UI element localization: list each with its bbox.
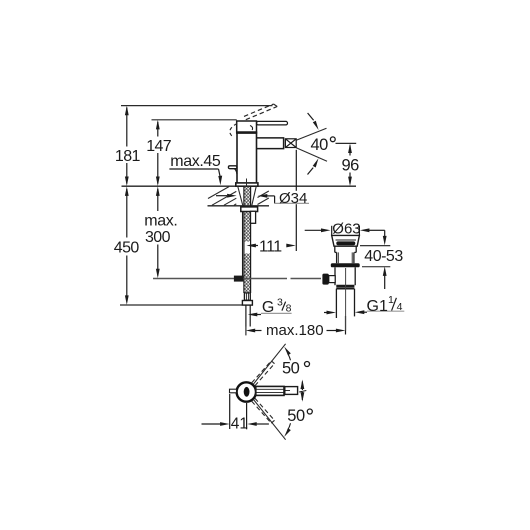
wire: 96 top reference line	[336, 142, 357, 144]
svg-text:40: 40	[311, 136, 329, 154]
plan view: spout tip tab	[230, 389, 237, 393]
svg-text:G1: G1	[367, 298, 388, 315]
label G 3/8	[248, 313, 292, 317]
aerator with cross	[285, 139, 296, 148]
shank washer lines under flange	[238, 187, 256, 206]
plan view: 50 line upper (solid thin)	[253, 344, 285, 384]
horizontal pop-up linkage rod	[153, 278, 321, 280]
pop-up pull knob on body	[228, 166, 237, 174]
svg-text:50: 50	[287, 407, 305, 425]
svg-text:111: 111	[259, 238, 282, 255]
svg-text:41: 41	[231, 416, 248, 433]
wire: top reference line (lever raised height 181)	[121, 105, 273, 107]
wire: 450 bottom reference line	[120, 304, 242, 306]
deck hatching	[208, 187, 269, 206]
40-degree spray angle lines	[296, 128, 327, 161]
40-degree lower leader arrow	[308, 158, 319, 174]
waste center rod line	[345, 268, 347, 331]
waste pop-up knob	[322, 274, 335, 285]
dimension diameter 63	[305, 226, 385, 235]
plan view: lever rotated down 50 (dashed)	[252, 398, 275, 423]
svg-text:Ø34: Ø34	[279, 190, 307, 207]
small rotation arrow at cartridge	[250, 126, 253, 131]
plan view: 50 line lower (solid thin)	[253, 399, 285, 439]
spout	[257, 138, 284, 149]
wire: reference line (lever rest height 147)	[152, 119, 237, 121]
dimension max.180	[246, 316, 346, 335]
pop-up pull rod (vertical)	[242, 212, 244, 277]
plan view: lever shaft	[256, 386, 284, 395]
plan view: swing arc at lever end with arrows	[299, 380, 306, 402]
svg-text:max.: max.	[144, 212, 177, 229]
pop-up waste assembly: flange	[332, 235, 360, 246]
O-ring seal (dark band)	[331, 263, 360, 267]
plan view: center pin	[244, 387, 250, 397]
waste upper body	[337, 252, 354, 263]
waste lower body	[335, 267, 355, 285]
svg-text:96: 96	[342, 157, 360, 175]
label max.45 with leader arrow to deck	[169, 169, 222, 185]
waste tailpipe G 1 1/4	[336, 289, 354, 318]
dimension 96	[348, 144, 352, 187]
base flange	[236, 183, 258, 186]
dimension max.300	[156, 186, 160, 278]
svg-text:147: 147	[146, 138, 172, 155]
svg-text:8: 8	[286, 302, 292, 314]
plan view: lever rotated up 50 (dashed)	[252, 361, 275, 386]
plan view: upper arc arrow	[284, 347, 291, 361]
svg-text:40-53: 40-53	[364, 248, 403, 265]
40-degree upper leader arrow	[308, 113, 319, 130]
plan view: handle circle	[237, 382, 256, 401]
svg-text:181: 181	[115, 148, 141, 165]
faucet lever (rest position)	[257, 121, 288, 125]
label G 1 1/4	[324, 310, 404, 314]
faucet body column	[237, 133, 257, 183]
lever swing dashed arc (left of cartridge)	[230, 124, 237, 138]
svg-text:50: 50	[282, 360, 300, 378]
mounting nut	[241, 207, 258, 212]
waste joint band	[336, 286, 354, 289]
dimension 111	[246, 150, 296, 251]
svg-text:G: G	[262, 299, 274, 316]
faucet lever (raised, dashed)	[244, 104, 277, 120]
svg-text:1: 1	[388, 294, 394, 306]
centerline tick at flange	[246, 179, 248, 187]
dimension 147	[156, 120, 160, 186]
rod coupling block	[234, 276, 244, 282]
dimension 41 (plan)	[202, 394, 269, 429]
svg-text:3: 3	[277, 297, 283, 309]
svg-text:Ø63: Ø63	[332, 220, 360, 237]
svg-text:max.45: max.45	[170, 153, 221, 170]
waste plug cap (dark)	[336, 239, 357, 241]
svg-text:4: 4	[397, 301, 403, 313]
plan view: lower arc arrow	[284, 423, 291, 437]
dimension 181	[125, 106, 129, 186]
faucet body: cartridge head box	[236, 121, 257, 133]
dimension diameter 34 label	[216, 194, 309, 204]
dimension 40-53	[360, 230, 390, 289]
G 3/8 hose end fitting	[242, 293, 252, 336]
svg-text:450: 450	[114, 239, 140, 256]
waste neck	[335, 246, 356, 252]
svg-text:max.180: max.180	[266, 322, 324, 339]
svg-text:300: 300	[145, 229, 171, 246]
dimension 450	[125, 186, 129, 305]
deck cross-section	[122, 186, 357, 206]
pop-up rod guide clip	[251, 211, 256, 223]
plan view: lever end cap	[285, 387, 298, 395]
